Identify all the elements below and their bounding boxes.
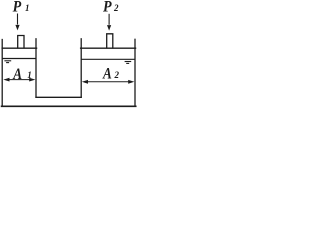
svg-text:P: P: [102, 0, 112, 16]
svg-text:1: 1: [25, 3, 30, 13]
svg-text:A: A: [102, 65, 112, 82]
svg-text:1: 1: [27, 70, 32, 80]
svg-text:2: 2: [113, 3, 119, 13]
svg-text:P: P: [12, 0, 22, 16]
svg-text:A: A: [12, 66, 22, 83]
svg-text:2: 2: [114, 70, 120, 80]
